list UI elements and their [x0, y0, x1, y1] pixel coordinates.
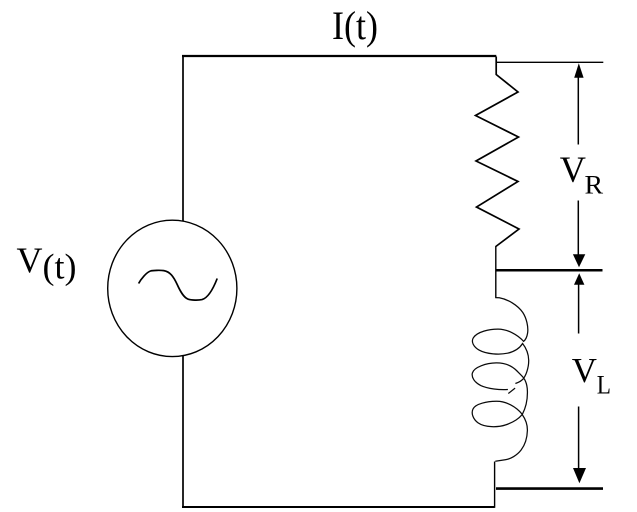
- inductor L pen dash: [508, 388, 515, 393]
- AC source sine wave: [139, 270, 218, 300]
- VL arrow line lower: [578, 407, 580, 470]
- svg-text:V: V: [572, 351, 597, 390]
- wire left upper: [182, 55, 184, 221]
- wire top I(t): [182, 55, 496, 57]
- wire right lower (inductor to bottom): [494, 462, 496, 508]
- VR arrowhead down: [573, 254, 585, 267]
- VR arrow line upper: [577, 77, 579, 145]
- inductor L loop 3 and exit: [472, 401, 527, 461]
- tick line middle: [496, 269, 603, 272]
- VR arrow line lower: [577, 201, 579, 256]
- VL arrowhead down: [573, 468, 586, 483]
- inductor L loop 2 and right arc: [472, 363, 527, 415]
- svg-text:V: V: [17, 240, 43, 280]
- tick line top: [497, 61, 603, 63]
- svg-text:(t): (t): [43, 247, 77, 287]
- svg-text:R: R: [585, 171, 604, 200]
- VL arrow line upper: [578, 284, 580, 334]
- AC source V1 circle: [108, 220, 237, 356]
- wire bottom: [182, 506, 495, 508]
- svg-text:L: L: [597, 371, 611, 400]
- VR arrowhead up: [574, 63, 583, 78]
- wire left lower: [182, 356, 184, 508]
- VL arrowhead up: [574, 273, 584, 285]
- wire resistor to inductor: [495, 246, 497, 298]
- svg-text:I(t): I(t): [332, 3, 378, 48]
- tick line bottom: [496, 487, 603, 490]
- inductor L entry arc and loop 1: [472, 298, 528, 384]
- svg-text:V: V: [560, 150, 586, 191]
- resistor R: [476, 57, 520, 247]
